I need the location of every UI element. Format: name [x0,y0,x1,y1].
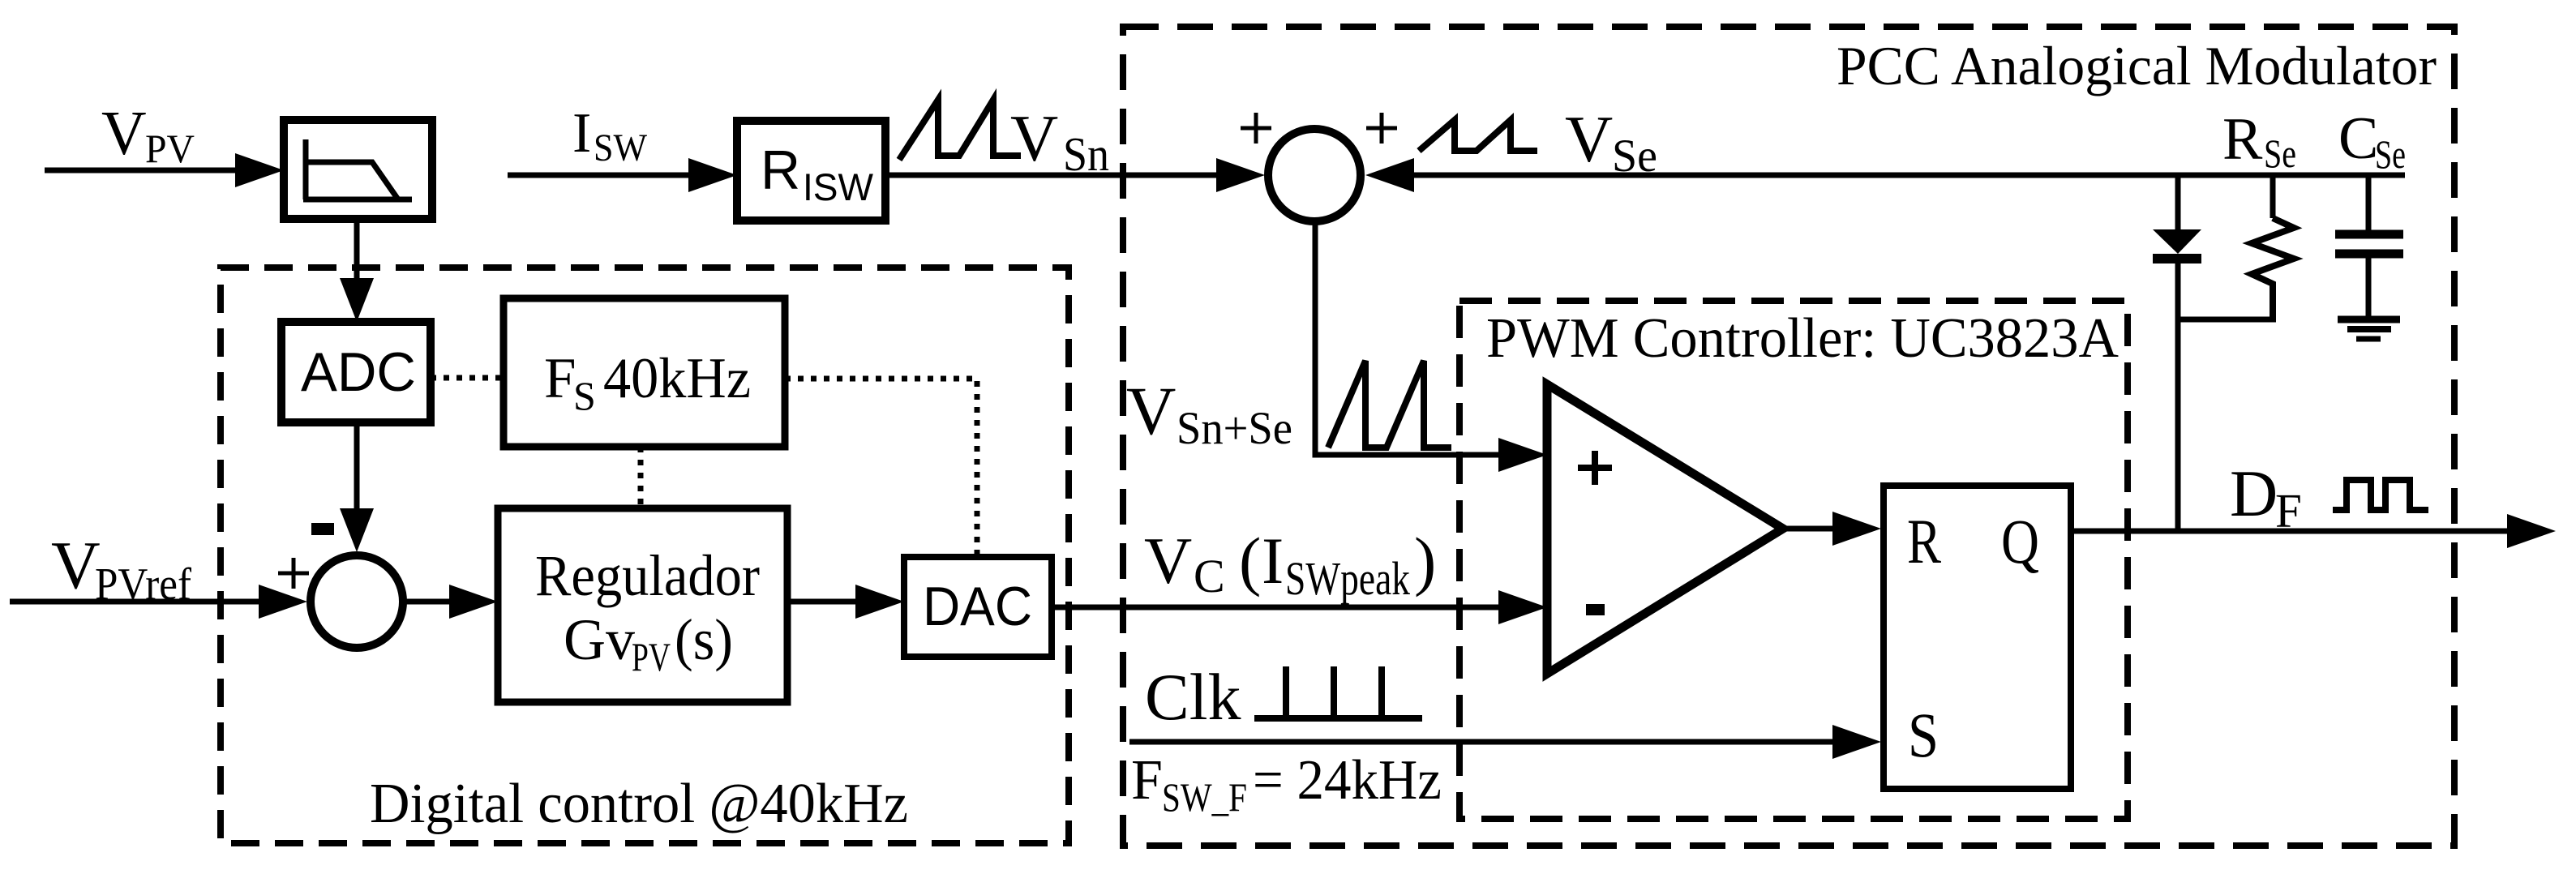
svg-text:R: R [761,139,800,201]
svg-text:I: I [1262,524,1284,598]
svg-text:Sn+Se: Sn+Se [1177,403,1292,454]
svg-text:S: S [573,373,596,418]
dashed box: PCC Analogical Modulator [1123,27,2454,846]
arrowhead into summing junction left [1216,158,1265,192]
block F_S 40kHz [504,298,785,447]
svg-text:Digital control @40kHz: Digital control @40kHz [370,773,908,835]
arrowhead into junction 2 left [259,585,307,619]
block DAC [904,557,1052,657]
arrowhead into Regulador [449,585,498,619]
svg-text:V: V [1126,373,1176,449]
svg-text:Clk: Clk [1145,660,1241,734]
arrowhead into DAC [855,585,904,619]
svg-text:PV: PV [632,634,671,679]
svg-text:Se: Se [2264,131,2296,176]
wire filter to ADC [354,219,360,284]
svg-text:ISW: ISW [803,165,874,208]
svg-text:Se: Se [2375,131,2406,177]
svg-text:Regulador: Regulador [535,543,760,608]
summing junction 1 [1268,129,1361,221]
feedback wire down from RC network to output [2175,319,2181,531]
filter axis [303,139,412,199]
dotted link FS down to Regulador [638,447,644,508]
svg-text:ADC: ADC [301,341,416,403]
minus sign in comparator [1586,604,1605,615]
arrowhead into ADC [340,278,374,322]
svg-text:PCC Analogical Modulator: PCC Analogical Modulator [1837,35,2437,96]
svg-text:R: R [2222,106,2263,173]
svg-text:PV: PV [145,126,195,171]
svg-text:Sn: Sn [1063,127,1109,181]
svg-text:PWM Controller: UC3823A: PWM Controller: UC3823A [1486,307,2119,370]
svg-text:DAC: DAC [923,576,1032,637]
comparator triangle [1547,384,1783,674]
svg-text:V: V [1565,102,1613,176]
svg-text:40kHz: 40kHz [603,347,751,410]
RS latch box [1884,486,2071,789]
summing junction 2 [311,555,403,648]
dashed box: Digital control @40kHz [221,268,1069,843]
arrowhead V_Se into summing junction right (pointing left) [1365,158,1414,192]
svg-text:V: V [51,528,101,603]
plus sign in comparator [1578,451,1612,485]
low-pass filter block [284,120,432,219]
arrowhead into filter [235,153,284,187]
sawtooth glyph V_Sn+Se [1328,361,1451,448]
wire DAC to comparator minus [1052,605,1502,611]
svg-text:F: F [1131,749,1163,812]
svg-text:(: ( [1239,524,1261,598]
block ADC [281,322,431,422]
svg-text:= 24kHz: = 24kHz [1253,749,1442,812]
wire V_PVref input [10,599,264,605]
plus sign at junction 2 [278,558,309,589]
block Regulador [498,508,787,702]
junction wire diode-resistor bottom [2175,317,2276,323]
svg-text:SW_F: SW_F [1162,774,1247,820]
wire junction2 to Regulador [403,599,452,605]
svg-text:C: C [1194,550,1225,602]
square wave glyph D_F [2333,480,2428,510]
ground [2338,316,2400,323]
minus sign at junction 2 [311,523,334,535]
clock pulses glyph [1254,666,1422,718]
svg-text:PVref: PVref [95,559,191,610]
svg-text:V: V [1144,524,1192,598]
arrowhead into latch S [1832,725,1881,759]
wire V_PV input [45,168,239,174]
wire ADC down to summing junction 2 [354,422,360,511]
capacitor C_Se [2366,175,2372,230]
dotted link ADC to FS [431,375,504,381]
svg-text:Gv: Gv [564,607,635,672]
wire V_Se [1414,173,2405,178]
svg-text:SWpeak: SWpeak [1285,552,1410,605]
svg-text:): ) [1414,524,1436,598]
svg-text:V: V [101,98,147,168]
svg-text:C: C [2338,105,2378,172]
svg-text:I: I [572,102,591,165]
plus sign right of junction 1 [1366,113,1397,144]
diode D [2153,229,2201,254]
wire Clk / S input [1129,739,1837,745]
arrowhead into comparator - input [1498,590,1547,624]
arrowhead into summing junction 2 top [340,508,374,552]
arrowhead into comparator + input [1498,438,1547,472]
svg-text:SW: SW [594,126,648,169]
wire comparator to latch R [1783,526,1837,532]
dashed box: PWM Controller UC3823A [1459,301,2128,819]
wire: junction1 down and right to comparator + [1315,221,1502,455]
sawtooth glyph V_Se [1419,120,1537,151]
block R_ISW [737,121,885,221]
output arrowhead [2507,514,2556,548]
resistor R_Se [2270,175,2276,218]
svg-text:V: V [1010,101,1058,175]
wire Q output [2071,529,2510,534]
svg-text:F: F [2275,484,2302,538]
wire I_SW input [508,173,693,178]
arrowhead into latch R [1832,512,1881,546]
wire V_Sn: R_ISW to summing junction [885,173,1221,178]
sawtooth glyph V_Sn [899,100,1021,160]
svg-text:(s): (s) [675,607,733,672]
plus sign left of junction 1 [1241,113,1271,144]
svg-text:R: R [1907,506,1941,576]
svg-text:F: F [544,347,576,410]
diode branch wire [2175,175,2181,231]
filter response curve [307,162,398,199]
wire Regulador to DAC [787,599,859,605]
svg-text:Se: Se [1612,131,1657,182]
svg-text:S: S [1908,700,1939,770]
svg-text:D: D [2230,456,2278,530]
svg-text:Q: Q [2001,506,2039,576]
dotted link FS to DAC [785,379,977,557]
arrowhead into R_ISW [688,158,737,192]
